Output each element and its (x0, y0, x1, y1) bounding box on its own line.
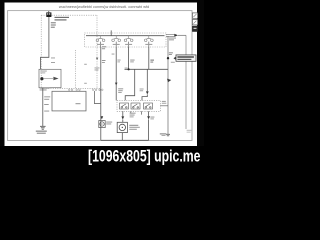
connector terminal dot (40, 77, 43, 80)
relay box (dashed) (117, 100, 160, 111)
legend icon squares (top right margin) (192, 13, 197, 25)
connector contact row (68, 89, 103, 91)
fuse block boundary (dashed, left) (41, 15, 100, 88)
bottom ground bus (101, 139, 149, 141)
background frame (0, 0, 204, 168)
bus bar (86, 35, 165, 37)
wiper motor M2 (117, 122, 127, 132)
fuse F3 (112, 36, 121, 47)
ground label G200 (36, 131, 47, 134)
ground wire (left) (42, 88, 44, 126)
wire F5 branch down to node (148, 47, 150, 69)
page border (8, 11, 192, 141)
relay feed 2 with connector (146, 69, 148, 91)
module box (left, solid) (52, 91, 86, 111)
relay contact K3 (144, 103, 153, 109)
C2 label below (40, 88, 50, 91)
callout note box (176, 55, 196, 61)
ground label G305 (faint) (187, 130, 193, 133)
relay contact K2 (131, 103, 140, 109)
watermark bar (0, 146, 204, 168)
callout arrow (174, 56, 177, 60)
fuse F1 (top-left, dark glyph) (46, 11, 51, 17)
wire F3 branch down to node (128, 47, 130, 69)
M2 label (129, 125, 140, 130)
relay contact K1 (120, 103, 129, 109)
connector box C2 (left) (39, 69, 61, 87)
connector arrow (53, 77, 58, 80)
wire from contact row down and right (95, 91, 101, 104)
right feed wire down (185, 35, 187, 129)
wire from F1 down to connector box (41, 17, 49, 69)
wiper motor feed with connector (122, 111, 124, 116)
svg-text:wuchneew{wuflebbl conms}w dsbl: wuchneew{wuflebbl conms}w dsblvhsoti. co… (59, 5, 149, 9)
relay box label (right) (160, 105, 168, 107)
wire F1 branch: long drop to bottom bus (100, 47, 102, 140)
M2 ground stem (121, 133, 123, 141)
connector arrow on boundary x97 (96, 58, 98, 61)
exit label (169, 38, 176, 41)
washer pump M1 (99, 121, 105, 128)
feed stub (110, 30, 112, 35)
fuse F4 (124, 36, 133, 47)
svg-text:[1096x805] upic.me: [1096x805] upic.me (88, 148, 201, 166)
relay feed jog wire (125, 69, 135, 100)
fuse F5 (144, 36, 153, 47)
splice node with callout (167, 36, 169, 134)
splice marks on fuse-block boundary (95, 67, 100, 70)
wire mark specks (84, 63, 87, 66)
ground G200 (40, 126, 46, 129)
relay output stub (141, 111, 143, 114)
horizontal node wire (125, 68, 169, 70)
fuse F1 value label (55, 17, 70, 21)
relay output to ground with connector (148, 111, 150, 116)
wire F2 branch down to relay box (115, 47, 117, 100)
connector exit to right of fuse block (166, 34, 174, 36)
wire color label (left of wire) (51, 22, 56, 27)
connector arrow on splice wire (167, 79, 171, 83)
junction node (128, 68, 130, 70)
ground end of splice wire (166, 134, 170, 136)
fuse block (bussed electrical center) (85, 33, 167, 47)
fuse F2 (96, 36, 105, 47)
relay output stub b (130, 111, 132, 113)
washer pump feed connector (100, 116, 103, 119)
